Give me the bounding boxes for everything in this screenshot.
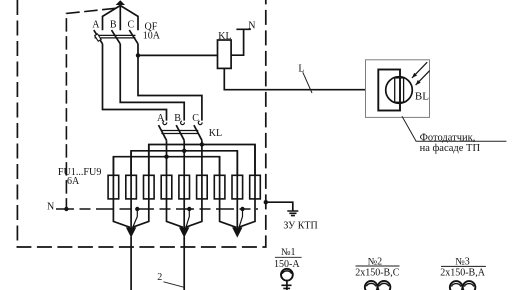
svg-text:10A: 10A bbox=[143, 31, 161, 42]
svg-text:№1: №1 bbox=[281, 247, 296, 258]
svg-text:150-А: 150-А bbox=[274, 259, 300, 270]
svg-text:2: 2 bbox=[157, 272, 162, 283]
svg-text:L: L bbox=[298, 64, 304, 75]
svg-text:N: N bbox=[47, 202, 54, 213]
svg-text:2х150-В,С: 2х150-В,С bbox=[355, 268, 400, 279]
svg-text:Фотодатчик,: Фотодатчик, bbox=[420, 132, 476, 143]
svg-text:N: N bbox=[248, 21, 255, 32]
svg-text:C: C bbox=[192, 113, 199, 124]
svg-text:KL: KL bbox=[218, 31, 231, 42]
svg-text:№3: №3 bbox=[455, 256, 470, 267]
svg-text:FU1...FU9: FU1...FU9 bbox=[58, 167, 102, 178]
svg-text:на фасаде ТП: на фасаде ТП bbox=[420, 143, 481, 154]
svg-text:A: A bbox=[92, 19, 100, 30]
svg-text:6A: 6A bbox=[67, 176, 80, 187]
svg-text:2х150-В,А: 2х150-В,А bbox=[440, 268, 486, 279]
svg-text:B: B bbox=[110, 19, 117, 30]
svg-text:№2: №2 bbox=[368, 256, 383, 267]
svg-text:BL: BL bbox=[415, 90, 429, 102]
svg-text:ЗУ КТП: ЗУ КТП bbox=[283, 221, 317, 232]
svg-text:KL: KL bbox=[209, 128, 222, 139]
svg-text:B: B bbox=[174, 113, 181, 124]
svg-text:C: C bbox=[128, 19, 135, 30]
svg-text:A: A bbox=[157, 113, 165, 124]
